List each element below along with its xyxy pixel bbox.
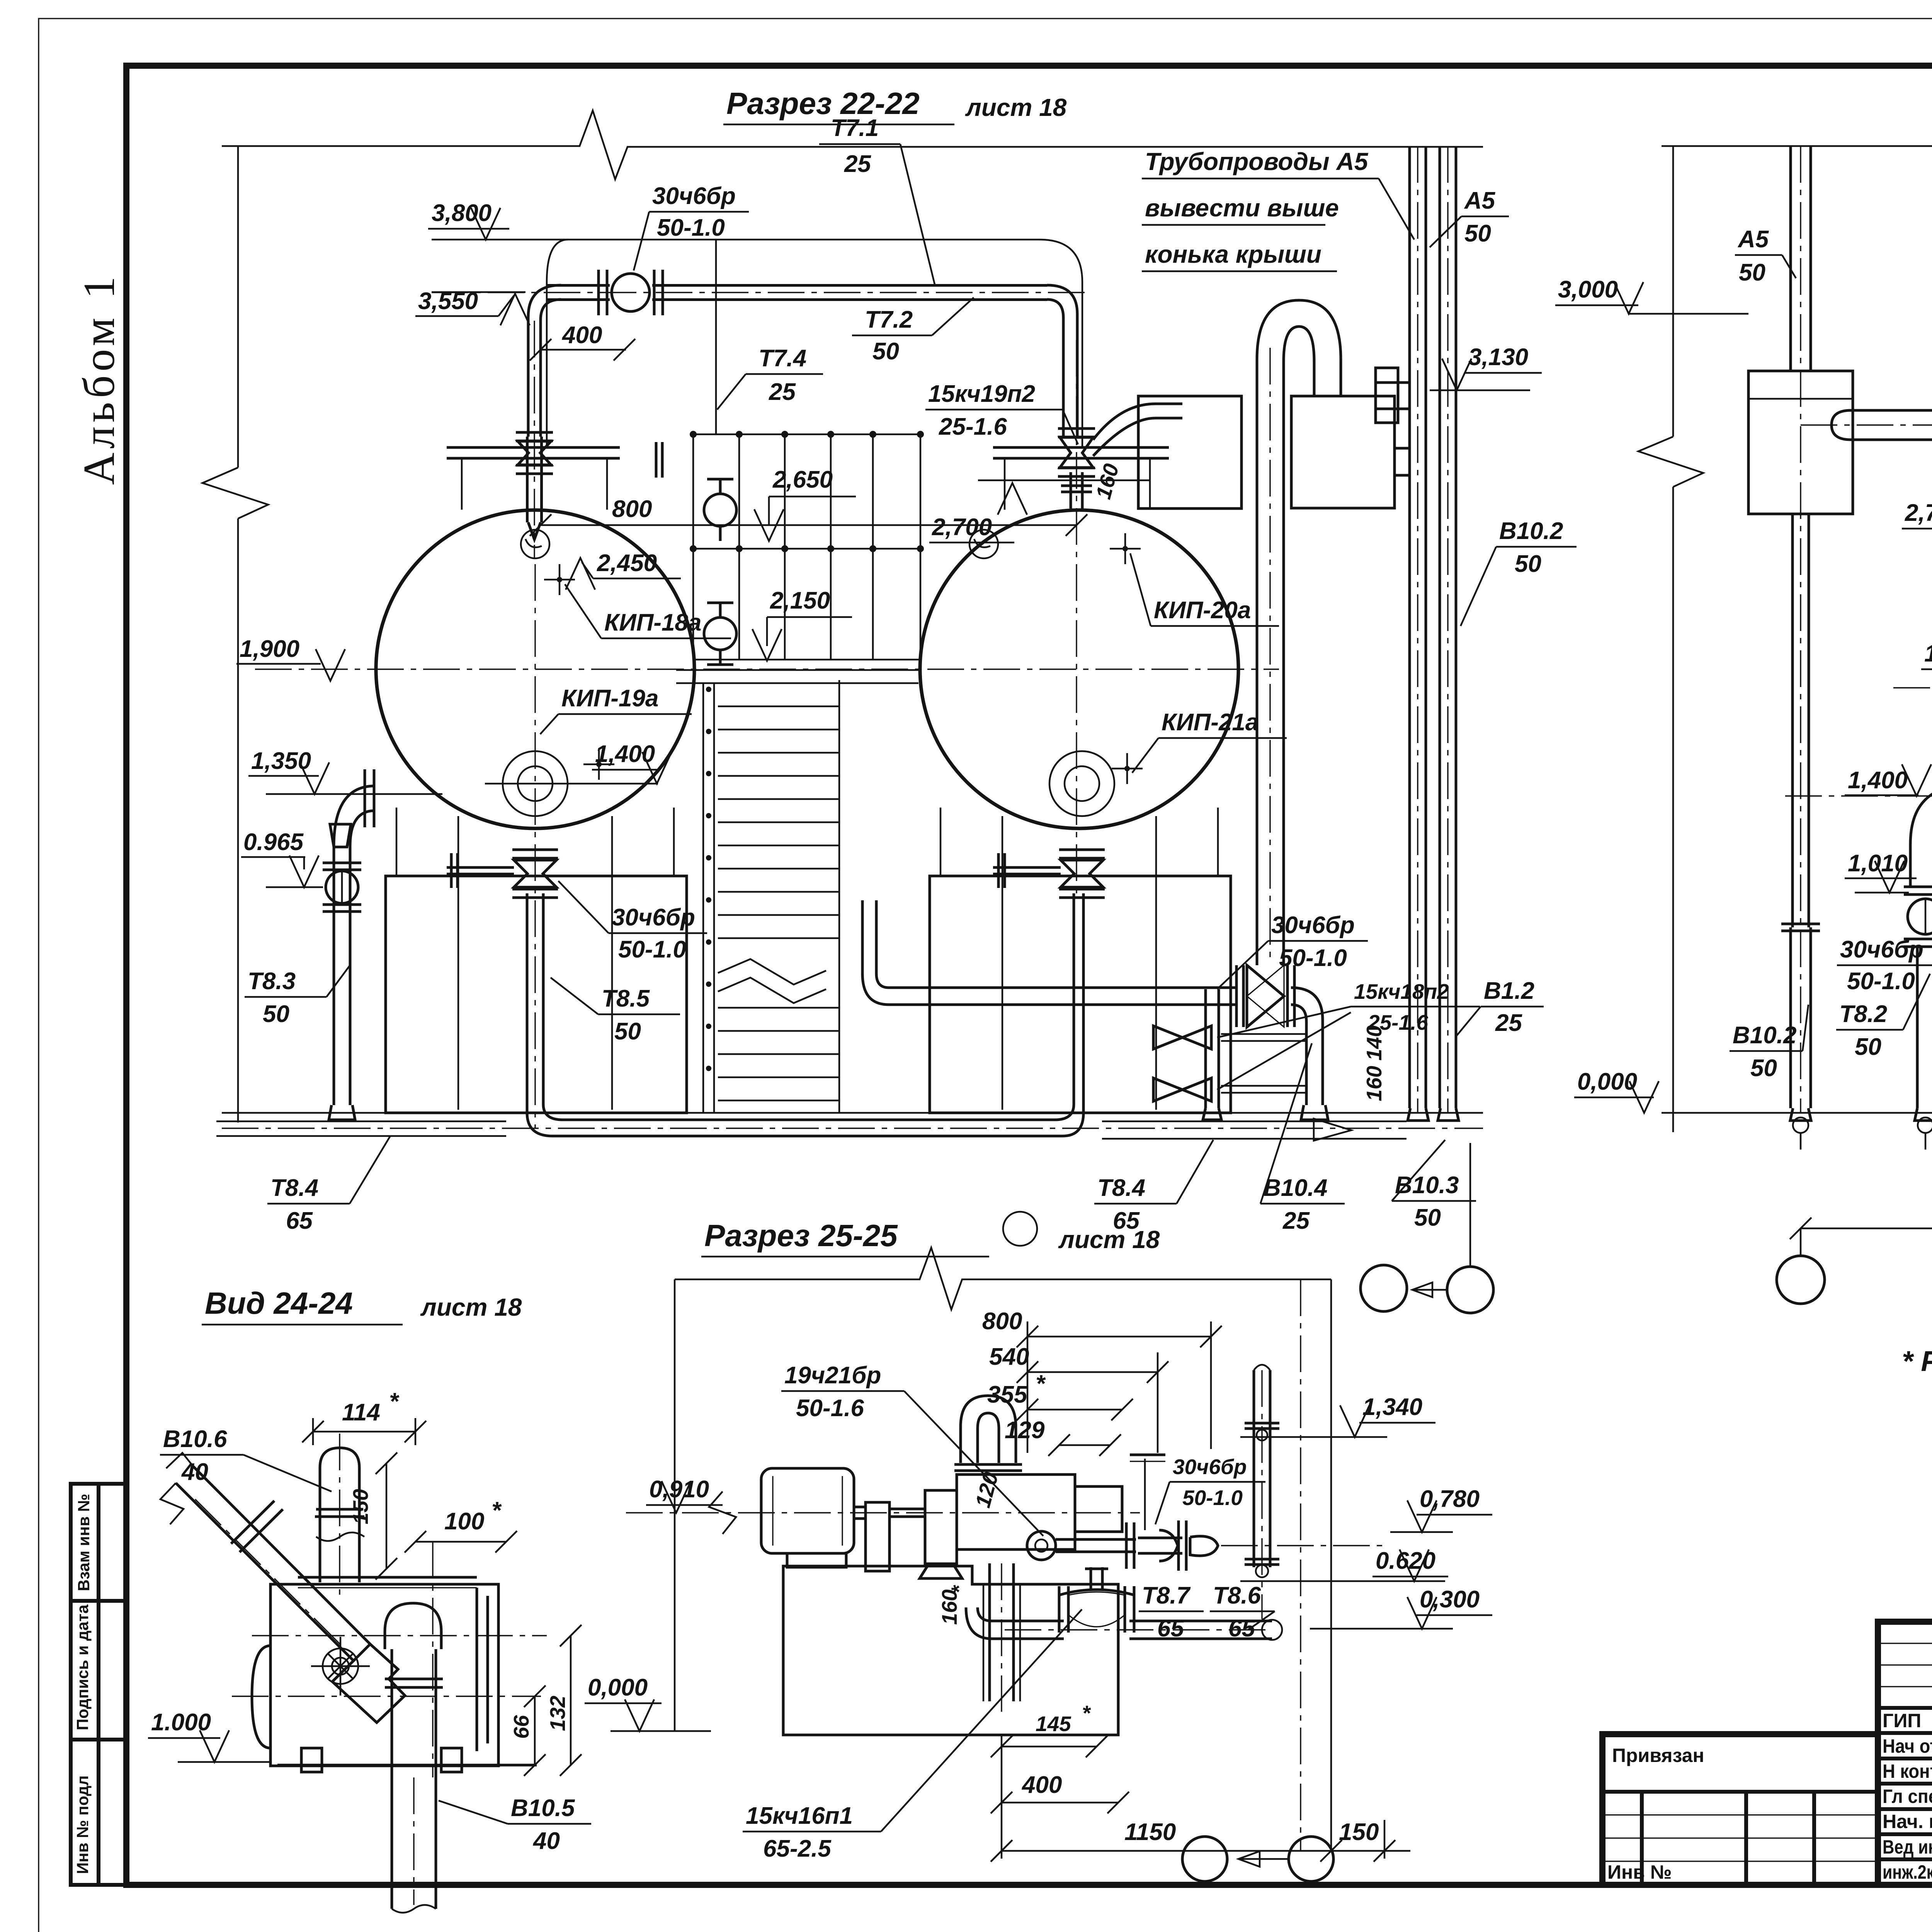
svg-text:145: 145 bbox=[1036, 1712, 1071, 1736]
svg-text:400: 400 bbox=[561, 322, 602, 349]
A5 riser pipe bbox=[1789, 146, 1792, 371]
staircase treads bbox=[718, 706, 839, 707]
svg-text:Нач. гр.: Нач. гр. bbox=[1883, 1811, 1932, 1832]
pump suction nozzle circle bbox=[1027, 1531, 1056, 1560]
svg-text:30ч6бр: 30ч6бр bbox=[652, 183, 736, 209]
top line 25-25 bbox=[675, 1248, 1331, 1310]
svg-text:800: 800 bbox=[612, 496, 652, 522]
A5 trap unit bbox=[1748, 371, 1853, 514]
tank 2 bottom valve bbox=[1059, 849, 1105, 851]
svg-text:КИП-18а: КИП-18а bbox=[604, 609, 701, 636]
svg-text:25: 25 bbox=[1495, 1010, 1522, 1036]
title block attachment table bbox=[1602, 1734, 1878, 1885]
svg-text:400: 400 bbox=[1021, 1772, 1062, 1798]
svg-text:А5: А5 bbox=[1737, 226, 1769, 253]
tank 2 supports bbox=[940, 808, 942, 876]
svg-text:50: 50 bbox=[1464, 220, 1491, 247]
svg-text:1.000: 1.000 bbox=[151, 1709, 211, 1736]
svg-text:Трубопроводы А5: Трубопроводы А5 bbox=[1145, 148, 1369, 175]
svg-text:65: 65 bbox=[286, 1207, 313, 1234]
pipe T7.2 horizontal bbox=[547, 284, 610, 287]
tank enclosure rounded outline bbox=[432, 240, 1082, 446]
svg-text:КИП-20а: КИП-20а bbox=[1154, 597, 1251, 624]
coupling bbox=[866, 1502, 889, 1571]
inlet drop valve bbox=[1909, 844, 1912, 887]
svg-text:Т7.1: Т7.1 bbox=[831, 115, 879, 141]
staircase rail dots bbox=[706, 687, 711, 692]
left margin stamp box: Inv N podl bbox=[71, 1740, 126, 1885]
svg-text:114: 114 bbox=[342, 1399, 380, 1426]
svg-text:вывести выше: вывести выше bbox=[1145, 194, 1339, 222]
svg-text:800: 800 bbox=[982, 1308, 1022, 1335]
svg-text:30ч6бр: 30ч6бр bbox=[1840, 936, 1923, 963]
tank 1 bottom valve 30ch6br bbox=[512, 849, 558, 851]
svg-text:100: 100 bbox=[444, 1508, 484, 1535]
pump centerline 25-25 bbox=[626, 1512, 1140, 1513]
svg-text:Подпись и дата: Подпись и дата bbox=[73, 1604, 92, 1730]
svg-text:В10.5: В10.5 bbox=[511, 1795, 575, 1821]
svg-text:25: 25 bbox=[769, 379, 796, 405]
svg-text:15кч19п2: 15кч19п2 bbox=[928, 381, 1035, 407]
stair landing platform bbox=[676, 669, 918, 671]
top reference line with break bbox=[222, 111, 1483, 179]
svg-text:1,350: 1,350 bbox=[251, 748, 311, 774]
label KIP-19a bbox=[596, 762, 602, 767]
level sensor 2650 bbox=[704, 494, 736, 526]
svg-text:140: 140 bbox=[1362, 1025, 1386, 1061]
diagonal pipe with broken end bbox=[176, 1483, 354, 1661]
svg-text:Альбом 1: Альбом 1 bbox=[75, 272, 124, 485]
svg-text:конька крыши: конька крыши bbox=[1145, 240, 1321, 268]
svg-text:Вид 24-24: Вид 24-24 bbox=[205, 1286, 353, 1320]
left margin stamp box: Vzam inv bbox=[71, 1484, 126, 1601]
svg-text:160: 160 bbox=[1362, 1066, 1386, 1101]
elbow down to floor bbox=[1291, 988, 1323, 1105]
U loop on pump bbox=[961, 1396, 1016, 1463]
instrument box 1 bbox=[1138, 396, 1242, 509]
svg-text:В10.2: В10.2 bbox=[1499, 518, 1563, 544]
svg-text:2,150: 2,150 bbox=[770, 587, 830, 614]
angle valve body bbox=[332, 1644, 405, 1723]
svg-text:50: 50 bbox=[1414, 1204, 1441, 1231]
svg-text:50-1.0: 50-1.0 bbox=[1182, 1486, 1243, 1510]
svg-text:В10.4: В10.4 bbox=[1264, 1175, 1327, 1201]
svg-text:3,000: 3,000 bbox=[1558, 276, 1618, 303]
svg-text:Нач отд.: Нач отд. bbox=[1883, 1735, 1932, 1757]
svg-text:50-1.6: 50-1.6 bbox=[796, 1395, 864, 1422]
dome nozzle V10.6 bbox=[320, 1448, 359, 1582]
tank 1 bottom nozzle bbox=[503, 751, 568, 816]
svg-text:Т8.5: Т8.5 bbox=[602, 985, 650, 1012]
svg-text:Н контр.: Н контр. bbox=[1883, 1760, 1932, 1782]
svg-text:2,450: 2,450 bbox=[597, 550, 657, 577]
valve 30ch6br on T7.2 bbox=[612, 274, 650, 311]
svg-text:2,750: 2,750 bbox=[1905, 500, 1932, 526]
staircase rails bbox=[702, 684, 704, 1113]
tank 2 top nozzle bbox=[969, 530, 998, 558]
svg-text:50-1.0: 50-1.0 bbox=[657, 214, 725, 241]
svg-text:129: 129 bbox=[1005, 1417, 1045, 1444]
pump unit bbox=[925, 1490, 957, 1564]
svg-text:*: * bbox=[947, 1585, 971, 1594]
U loop pipe over boxes bbox=[1257, 300, 1341, 965]
svg-text:40: 40 bbox=[181, 1459, 208, 1485]
tank 1 shell bbox=[376, 510, 694, 828]
svg-text:150: 150 bbox=[1339, 1819, 1379, 1845]
tank 2 pedestal bbox=[930, 876, 1231, 1113]
svg-text:50: 50 bbox=[614, 1018, 641, 1045]
flow arrow on floor pipe bbox=[1314, 1119, 1351, 1141]
instrument box 2 bbox=[1291, 396, 1395, 508]
svg-text:160: 160 bbox=[937, 1589, 961, 1625]
svg-text:15кч16п1: 15кч16п1 bbox=[746, 1803, 853, 1829]
svg-text:30ч6бр: 30ч6бр bbox=[1271, 912, 1355, 939]
svg-text:50-1.0: 50-1.0 bbox=[1279, 945, 1347, 971]
ground line right view bbox=[1662, 1112, 1932, 1114]
axis circles pair between views bbox=[1361, 1265, 1407, 1311]
svg-text:0,910: 0,910 bbox=[649, 1476, 709, 1503]
valve 30ch6br 25-25 bbox=[1159, 1530, 1178, 1561]
svg-text:*: * bbox=[1082, 1701, 1091, 1725]
left margin stamp box: Podpis i data bbox=[71, 1601, 126, 1740]
tank1 drain pipe + floor U run T8.5 bbox=[527, 893, 1083, 1136]
svg-text:инж.2кат.: инж.2кат. bbox=[1883, 1861, 1932, 1883]
svg-text:Вед инж.: Вед инж. bbox=[1883, 1836, 1932, 1858]
svg-text:*: * bbox=[492, 1497, 502, 1524]
svg-text:540: 540 bbox=[989, 1344, 1029, 1370]
drop pipe from pump bbox=[988, 1563, 991, 1701]
svg-text:*: * bbox=[389, 1388, 400, 1415]
svg-text:ГИП: ГИП bbox=[1883, 1710, 1921, 1731]
svg-text:50: 50 bbox=[263, 1001, 289, 1027]
svg-text:лист 18: лист 18 bbox=[1058, 1226, 1160, 1253]
pump centerlines 24-24 bbox=[232, 1696, 541, 1697]
tall pipe B10.2 bbox=[1439, 146, 1441, 1108]
svg-text:В10.6: В10.6 bbox=[163, 1426, 227, 1452]
svg-text:В10.2: В10.2 bbox=[1733, 1022, 1796, 1049]
pump body 24-24 bbox=[270, 1584, 498, 1766]
motor bbox=[761, 1468, 854, 1553]
svg-text:2,650: 2,650 bbox=[772, 466, 833, 493]
left elevation line right view bbox=[1672, 146, 1674, 437]
svg-text:50: 50 bbox=[1515, 551, 1541, 577]
svg-text:50-1.0: 50-1.0 bbox=[1847, 968, 1915, 995]
lower horizontal pipe T8.6 bbox=[992, 1620, 1064, 1622]
svg-text:КИП-21а: КИП-21а bbox=[1162, 709, 1259, 736]
tank 1 top nozzle bbox=[521, 530, 549, 558]
svg-text:150: 150 bbox=[349, 1489, 372, 1524]
label KIP-21a bbox=[1124, 766, 1130, 771]
svg-text:15кч18п2: 15кч18п2 bbox=[1354, 980, 1449, 1003]
staff table rows bbox=[1878, 1643, 1932, 1644]
foundation bbox=[783, 1566, 1118, 1735]
discharge horizontal pipe bbox=[1056, 1538, 1136, 1541]
svg-text:25-1.6: 25-1.6 bbox=[939, 413, 1007, 440]
svg-text:50-1.0: 50-1.0 bbox=[618, 936, 686, 963]
svg-text:лист 18: лист 18 bbox=[965, 94, 1067, 121]
level sensor 2150 bbox=[704, 617, 736, 650]
svg-text:132: 132 bbox=[546, 1696, 570, 1731]
svg-text:1150: 1150 bbox=[1124, 1819, 1176, 1845]
pipe T7.4 bbox=[715, 240, 717, 434]
svg-text:3,130: 3,130 bbox=[1468, 344, 1528, 371]
foot circles bbox=[1793, 1117, 1808, 1133]
T8.3 run to tank2 bbox=[889, 986, 1236, 989]
riser pipe into tank 1 bbox=[526, 437, 529, 522]
valve on T8.3 run bbox=[1235, 965, 1238, 1027]
svg-text:0,000: 0,000 bbox=[588, 1674, 648, 1701]
valve with handle on tank1 riser bbox=[516, 431, 553, 434]
svg-text:* Размеры для справок.: * Размеры для справок. bbox=[1902, 1345, 1932, 1377]
svg-text:лист 18: лист 18 bbox=[420, 1293, 522, 1321]
vertical pipe right 25-25 bbox=[1253, 1370, 1255, 1567]
tank centerline 1,900 bbox=[1893, 687, 1932, 688]
svg-text:19ч21бр: 19ч21бр bbox=[784, 1362, 881, 1389]
svg-text:Т8.7: Т8.7 bbox=[1142, 1582, 1191, 1609]
svg-text:1,900: 1,900 bbox=[1924, 640, 1932, 667]
svg-text:1,400: 1,400 bbox=[1848, 767, 1908, 794]
title block outer bbox=[1878, 1622, 1932, 1885]
svg-text:Взам инв №: Взам инв № bbox=[75, 1494, 93, 1591]
floor line left view bbox=[222, 1112, 1483, 1114]
svg-text:Разрез 25-25: Разрез 25-25 bbox=[704, 1218, 898, 1253]
svg-text:Гл спец.: Гл спец. bbox=[1883, 1786, 1932, 1807]
svg-text:66: 66 bbox=[509, 1715, 533, 1739]
svg-text:30ч6бр: 30ч6бр bbox=[612, 904, 695, 931]
svg-text:30ч6бр: 30ч6бр bbox=[1173, 1455, 1247, 1479]
top reference line right view bbox=[1662, 111, 1932, 179]
svg-text:65-2.5: 65-2.5 bbox=[763, 1835, 832, 1862]
tank 2 centerlines bbox=[1076, 340, 1077, 896]
svg-text:Т7.4: Т7.4 bbox=[759, 345, 806, 372]
axis circle left (right view) bbox=[1800, 1228, 1802, 1256]
svg-text:А5: А5 bbox=[1464, 187, 1496, 214]
svg-text:50: 50 bbox=[1750, 1055, 1777, 1082]
tank 2 shell bbox=[920, 510, 1238, 828]
svg-text:1,900: 1,900 bbox=[240, 636, 299, 662]
svg-text:Привязан: Привязан bbox=[1612, 1745, 1704, 1766]
svg-text:3,800: 3,800 bbox=[432, 200, 492, 226]
tall pipe A5 bbox=[1408, 146, 1411, 1108]
pipe T7 from trap bbox=[1851, 409, 1932, 412]
tank 1 supports bbox=[396, 808, 398, 876]
tee valve 15kch16p1 bbox=[1059, 1590, 1134, 1595]
svg-text:0,300: 0,300 bbox=[1420, 1586, 1480, 1613]
svg-text:Т8.4: Т8.4 bbox=[1097, 1175, 1145, 1201]
svg-text:0.965: 0.965 bbox=[243, 829, 304, 855]
svg-text:50: 50 bbox=[1739, 259, 1765, 286]
svg-text:*: * bbox=[1036, 1371, 1046, 1397]
svg-text:0,000: 0,000 bbox=[1577, 1068, 1637, 1095]
tank1 platform bar bbox=[447, 446, 620, 449]
connection stub at 3,130 bbox=[1376, 381, 1410, 384]
svg-text:Т7.2: Т7.2 bbox=[865, 306, 913, 333]
svg-text:25: 25 bbox=[844, 151, 871, 177]
svg-text:25: 25 bbox=[1282, 1207, 1310, 1234]
tank 2 riser valve 15kch19p2 bbox=[1058, 427, 1095, 430]
window grid panel bbox=[692, 434, 694, 660]
pump top U nozzle bbox=[385, 1603, 441, 1649]
svg-text:2,700: 2,700 bbox=[932, 514, 992, 541]
svg-text:Т8.4: Т8.4 bbox=[270, 1175, 318, 1201]
label KIP-18a bbox=[557, 577, 562, 582]
axis circles bottom 25-25 bbox=[1182, 1837, 1227, 1881]
small valves 15kch18p2 bbox=[1221, 1033, 1306, 1035]
label KIP-20a bbox=[1122, 546, 1128, 551]
svg-text:В1.2: В1.2 bbox=[1484, 978, 1534, 1004]
svg-text:0,780: 0,780 bbox=[1420, 1486, 1480, 1512]
left pipe T8.3 assembly bbox=[334, 846, 350, 1105]
valve spindle circle bbox=[323, 1648, 358, 1684]
svg-text:Разрез 22-22: Разрез 22-22 bbox=[726, 86, 920, 121]
svg-text:Инв №: Инв № bbox=[1607, 1861, 1672, 1883]
staircase break bbox=[718, 959, 826, 985]
svg-text:Инв № подл: Инв № подл bbox=[73, 1776, 92, 1874]
tank 1 centerlines bbox=[255, 668, 1279, 670]
svg-text:КИП-19а: КИП-19а bbox=[561, 685, 658, 712]
svg-text:Т8.3: Т8.3 bbox=[248, 968, 296, 995]
dim 4000 bbox=[1801, 1228, 1932, 1230]
tank2 platform bar bbox=[993, 446, 1169, 449]
svg-text:40: 40 bbox=[532, 1828, 560, 1854]
stub from box2 to pipes bbox=[1395, 447, 1410, 450]
svg-text:Т8.6: Т8.6 bbox=[1213, 1582, 1261, 1609]
left elevation dimension line with break bbox=[237, 146, 239, 468]
diagonal pipe flange bbox=[231, 1501, 274, 1544]
svg-text:1,340: 1,340 bbox=[1362, 1394, 1422, 1420]
tank 1 pedestal bbox=[386, 876, 687, 1113]
svg-text:Т8.2: Т8.2 bbox=[1839, 1001, 1887, 1027]
svg-text:50: 50 bbox=[872, 338, 899, 365]
tank 2 bottom nozzle bbox=[1049, 751, 1114, 816]
discharge pipe V10.5 bbox=[391, 1649, 393, 1909]
elbow pipe from valve to box1 bbox=[1093, 404, 1182, 440]
downpipe B10.4 bbox=[1204, 989, 1207, 1108]
svg-text:1,400: 1,400 bbox=[595, 741, 655, 767]
svg-text:50: 50 bbox=[1855, 1034, 1881, 1060]
centerline of pipe T7.2 bbox=[432, 292, 1086, 293]
